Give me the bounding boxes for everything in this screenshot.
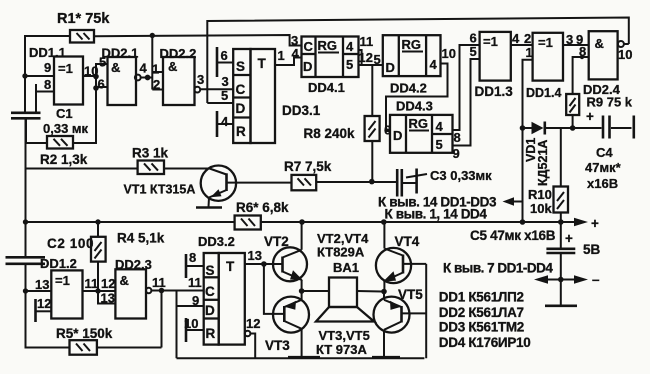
PART2: DD3.1 / DD4 registers / top line: [207, 18, 629, 182]
resistor R8: [365, 116, 380, 141]
transistor VT1: [164, 168, 210, 170]
arrow + right end of rail: [574, 218, 588, 226]
svg-text:5В: 5В: [583, 242, 601, 257]
svg-text:R2 1,3k: R2 1,3k: [40, 152, 88, 167]
svg-text:5: 5: [346, 57, 353, 72]
wire DD3.2 out13 to VT bases: [245, 263, 283, 265]
svg-text:VT2: VT2: [264, 234, 289, 249]
svg-text:VT4: VT4: [395, 234, 420, 249]
svg-text:=1: =1: [55, 273, 70, 288]
svg-text:9: 9: [453, 146, 460, 161]
svg-text:10: 10: [618, 47, 632, 62]
wire R7 to C3: [316, 181, 396, 183]
pin 6 S stub with tick: [216, 47, 219, 77]
svg-text:4: 4: [512, 31, 520, 46]
XOR gate DD1.3: [480, 32, 511, 81]
svg-text:8: 8: [189, 250, 196, 265]
svg-text:DD1.1: DD1.1: [29, 45, 66, 60]
svg-text:D: D: [303, 59, 312, 74]
svg-text:C: C: [205, 284, 215, 299]
resistor R3: [138, 161, 164, 175]
svg-text:D: D: [386, 60, 395, 75]
svg-text:R: R: [236, 124, 246, 139]
svg-text:R7 7,5k: R7 7,5k: [284, 159, 332, 174]
transistor VT5: [374, 297, 410, 333]
svg-text:DD4.3: DD4.3: [396, 99, 433, 114]
svg-text:VT3,VT5: VT3,VT5: [319, 328, 370, 343]
wire DD1.1 output pin 10: [83, 75, 96, 77]
svg-text:5: 5: [470, 44, 477, 59]
XOR gate DD1.1: [54, 57, 83, 105]
ground bar C4 right: [632, 116, 635, 139]
svg-text:R10: R10: [528, 187, 552, 202]
svg-text:R3 1k: R3 1k: [132, 146, 169, 161]
svg-text:DD1.4: DD1.4: [526, 86, 561, 100]
wire VT5 base: [402, 312, 427, 314]
svg-text:VT3: VT3: [265, 338, 290, 353]
svg-text:DD2.2: DD2.2: [160, 46, 197, 61]
capacitor C3: [396, 169, 399, 197]
svg-text:10: 10: [84, 64, 98, 79]
wire DD2.1 out to DD2.2 inputs: [141, 77, 153, 79]
svg-text:DD2.3: DD2.3: [115, 257, 152, 272]
capacitor C5 / battery: [560, 222, 562, 248]
transistor VT3: [273, 297, 309, 333]
pin 12 tick stub: [34, 299, 37, 322]
svg-text:DD2.1: DD2.1: [102, 46, 139, 61]
svg-text:13: 13: [35, 277, 49, 292]
NAND gate DD2.1: [108, 57, 137, 105]
wire bottom bus: [177, 357, 425, 359]
NAND gate DD2.3: [115, 269, 146, 318]
svg-text:R1* 75k: R1* 75k: [57, 11, 110, 27]
svg-text:11: 11: [360, 34, 374, 49]
svg-text:T: T: [226, 259, 235, 274]
wire DD4.1 out11 jog: [359, 50, 362, 65]
wire pin 6 stub: [96, 86, 108, 88]
svg-text:11: 11: [152, 275, 166, 290]
svg-text:C1: C1: [56, 106, 73, 121]
svg-text:4: 4: [140, 61, 148, 76]
svg-text:12: 12: [101, 276, 115, 291]
wire DD2.2 output to DD3.1 C input: [200, 88, 233, 90]
wire DD4.1 out12 to DD4.2 D: [359, 64, 383, 66]
wire R8 top riser: [371, 65, 373, 116]
svg-text:=1: =1: [58, 61, 73, 76]
svg-text:8: 8: [454, 130, 461, 145]
svg-text:5: 5: [436, 137, 443, 152]
wire R3 feed: [26, 168, 138, 170]
svg-text:12: 12: [37, 296, 51, 311]
node dot rail-left: [23, 219, 28, 224]
svg-text:DD4.1: DD4.1: [308, 80, 345, 95]
diode VD1: [523, 127, 532, 129]
svg-text:1: 1: [152, 62, 159, 77]
svg-text:=1: =1: [483, 34, 498, 49]
wire pin 8 with stub to C1: [36, 91, 54, 93]
svg-text:DD2 К561ЛА7: DD2 К561ЛА7: [439, 305, 524, 320]
wire VT1 base to R7: [227, 182, 292, 184]
svg-text:+: +: [591, 216, 599, 231]
resistor R2: [47, 136, 73, 149]
supply arrow to pins 14: [514, 201, 523, 203]
wire DD1.2 pin13: [26, 290, 52, 292]
svg-text:х16В: х16В: [587, 176, 618, 191]
svg-text:&: &: [111, 60, 120, 75]
wire R9 bottom: [572, 115, 574, 128]
wire DD1.3 out4 to DD1.4 pin2: [511, 44, 533, 46]
svg-text:6: 6: [221, 48, 228, 63]
svg-text:4: 4: [436, 119, 444, 134]
register DD4.2: [383, 35, 441, 76]
PART1: top-left oscillator: [11, 11, 302, 167]
pin 4 R stub with tick: [216, 111, 219, 137]
resistor R1: [70, 30, 94, 43]
svg-text:DD3.2: DD3.2: [198, 234, 235, 249]
capacitor C4: [602, 116, 605, 139]
svg-text:T: T: [258, 56, 267, 71]
wire VT4/VT5 base riser: [425, 264, 427, 358]
svg-text:9: 9: [192, 293, 199, 308]
svg-text:S: S: [236, 59, 245, 74]
svg-text:10: 10: [184, 316, 198, 331]
wire DD1.4 pin1 feedback riser: [523, 60, 533, 222]
wire C1 bottom to R2: [26, 118, 47, 143]
svg-text:R6* 6,8k: R6* 6,8k: [236, 200, 289, 215]
svg-text:4: 4: [430, 57, 438, 72]
wire VT2/VT3 base tie: [264, 264, 284, 314]
PART3: DD1.3 DD1.4 DD2.4 VD1 R9 C4 right column: [378, 31, 634, 223]
wire DD1.4 out3 to DD2.4: [563, 44, 589, 46]
wire DD4.3 out8 riser to DD1.3 pin6: [453, 45, 480, 130]
svg-text:DD1 К561ЛП2: DD1 К561ЛП2: [439, 290, 524, 305]
wire DD1.2 out11 to DD2.3: [83, 290, 116, 292]
svg-text:D: D: [393, 128, 402, 143]
svg-text:13: 13: [248, 248, 262, 263]
svg-text:C2 100: C2 100: [47, 236, 94, 251]
node A dot (pin9 junction): [22, 73, 27, 78]
svg-text:11: 11: [85, 276, 99, 291]
svg-text:R4 5,1k: R4 5,1k: [117, 231, 165, 246]
node dot out10: [93, 74, 99, 80]
XOR gate DD1.2: [51, 270, 82, 318]
svg-text:+: +: [565, 231, 573, 246]
svg-text:4: 4: [346, 39, 354, 54]
svg-text:13: 13: [101, 291, 115, 306]
wire DD2.3 out to DD3.2 C: [151, 290, 203, 292]
svg-text:С5 47мк х16В: С5 47мк х16В: [470, 228, 556, 243]
svg-text:DD1.3: DD1.3: [475, 84, 514, 99]
svg-text:RG: RG: [409, 116, 429, 131]
wire out12 drop to bottom wire: [250, 334, 255, 359]
svg-text:4: 4: [221, 114, 229, 129]
svg-text:2: 2: [524, 31, 531, 46]
resistor R6: [235, 216, 261, 230]
wire DD2.4 pin8 from R9: [573, 57, 589, 94]
svg-text:6: 6: [98, 77, 105, 92]
wire DD3.1 D input: [207, 102, 233, 104]
resistor R7: [292, 175, 317, 190]
svg-text:C: C: [304, 39, 314, 54]
svg-text:RG: RG: [402, 37, 422, 52]
PART5: bottom-left oscillator DD1.2 DD2.3 DD3.2: [6, 222, 425, 358]
svg-text:2: 2: [153, 77, 160, 92]
svg-text:0,33 мк: 0,33 мк: [43, 121, 89, 136]
svg-text:3: 3: [197, 72, 204, 87]
svg-text:К выв. 7 DD1-DD4: К выв. 7 DD1-DD4: [443, 261, 553, 276]
ground bar bottom: [560, 280, 562, 306]
svg-text:11: 11: [188, 275, 202, 290]
PART7: power C5 R10 texts: [439, 222, 601, 350]
svg-text:3: 3: [566, 32, 573, 47]
transistor VT2: [273, 247, 307, 281]
resistor R5: [70, 340, 97, 355]
svg-text:5: 5: [374, 52, 381, 67]
pin 10 R tick stub: [185, 318, 188, 342]
register DD4.3: [390, 115, 453, 153]
svg-text:10: 10: [442, 46, 456, 61]
svg-text:C4: C4: [596, 145, 613, 160]
rail right segment: [261, 221, 575, 223]
svg-text:С3 0,33мк: С3 0,33мк: [430, 168, 492, 183]
svg-text:+: +: [586, 109, 594, 124]
node dot DD1.2 pin13: [23, 288, 28, 293]
wire R2 right up to DD1.1 output node: [73, 64, 108, 143]
svg-text:D: D: [236, 101, 246, 116]
wire DD4.3 out9 riser to DD1.3 pin5: [453, 59, 480, 146]
svg-text:3: 3: [222, 74, 229, 89]
svg-text:R: R: [206, 326, 216, 341]
wire D feedback vertical to bottom wire: [176, 291, 178, 359]
PART6: output bridge VT2-VT5 speaker: [264, 222, 426, 358]
svg-text:1: 1: [526, 45, 533, 60]
svg-text:1: 1: [278, 48, 285, 63]
wire DD3.1 out pin1 to DD4.1 D: [275, 58, 302, 66]
capacitor C1: [11, 112, 41, 115]
svg-text:DD3.1: DD3.1: [282, 103, 321, 118]
svg-text:R8 240k: R8 240k: [304, 126, 356, 141]
wire DD4.2 out10 to DD4.3 D: [386, 64, 448, 132]
svg-text:RG: RG: [318, 38, 338, 53]
wire oscillator C-line to DD4.1 clock: [94, 35, 302, 46]
speaker BA1: [302, 290, 329, 292]
wire top feedback line: [207, 18, 629, 104]
svg-text:VT5: VT5: [398, 287, 423, 302]
wire pin 9: [25, 75, 54, 77]
node VD1 junction: [520, 125, 526, 131]
resistor R9: [566, 94, 579, 115]
svg-text:10k: 10k: [530, 201, 552, 216]
NAND gate DD2.4: [589, 31, 618, 79]
pin 8 S tick stub: [185, 254, 188, 278]
svg-text:47мк*: 47мк*: [585, 160, 622, 175]
svg-text:4: 4: [292, 46, 300, 61]
minus rail with arrows: [548, 279, 574, 281]
svg-text:&: &: [595, 36, 604, 51]
node dot pin6: [93, 85, 99, 91]
wire VT4 base: [403, 263, 426, 265]
svg-text:S: S: [206, 263, 215, 278]
wire jog to DD2.3 pin13: [98, 291, 115, 304]
flip-flop DD3.1: [233, 49, 250, 143]
svg-text:D: D: [205, 303, 215, 318]
svg-text:DD4 К176ИР10: DD4 К176ИР10: [439, 335, 531, 350]
svg-text:КД521А: КД521А: [536, 140, 550, 186]
wire DD2.2 input riser from C-line: [151, 36, 153, 90]
svg-text:9: 9: [44, 60, 51, 75]
svg-text:R5* 150k: R5* 150k: [56, 326, 113, 341]
transistor VT4: [376, 248, 411, 283]
NAND gate DD2.2: [163, 57, 195, 105]
XOR gate DD1.4: [533, 33, 563, 81]
flip-flop DD3.2: [204, 253, 219, 345]
svg-text:КТ829А: КТ829А: [317, 245, 365, 260]
svg-text:DD1.2: DD1.2: [40, 256, 77, 271]
wire R1 left to node A vertical: [25, 36, 70, 113]
svg-text:&: &: [120, 273, 129, 288]
svg-text:6: 6: [384, 123, 391, 138]
svg-text:12: 12: [246, 316, 260, 331]
svg-text:BA1: BA1: [333, 260, 359, 275]
wire R5 loop drop: [161, 291, 163, 348]
rail left segment with R6: [26, 221, 235, 223]
svg-text:&: &: [168, 59, 177, 74]
svg-text:=1: =1: [538, 35, 553, 50]
PART4: middle band VT1 R3 R6 R7 C3 rail: [23, 118, 599, 347]
svg-text:VT1 КТ315А: VT1 КТ315А: [124, 183, 196, 197]
svg-text:DD3 К561ТМ2: DD3 К561ТМ2: [439, 320, 524, 335]
DD3.2 inverted out12 bubble: [245, 331, 251, 337]
svg-text:C: C: [236, 82, 246, 97]
svg-text:–: –: [592, 272, 600, 287]
svg-text:DD4.2: DD4.2: [390, 81, 427, 96]
svg-text:R9 75 k: R9 75 k: [587, 95, 633, 110]
capacitor C2: [6, 256, 46, 259]
svg-text:8: 8: [44, 77, 51, 92]
register DD4.1: [302, 37, 359, 78]
svg-text:5: 5: [221, 88, 228, 103]
resistor R10: [560, 128, 562, 187]
svg-text:К выв. 1, 14 DD4: К выв. 1, 14 DD4: [385, 207, 488, 222]
wire R8 bottom riser: [371, 141, 373, 182]
svg-text:КТ 973А: КТ 973А: [316, 342, 368, 357]
wire left column long vertical: [25, 118, 27, 257]
wire DD3.2 D input: [177, 305, 204, 307]
resistor R4: [97, 222, 99, 237]
